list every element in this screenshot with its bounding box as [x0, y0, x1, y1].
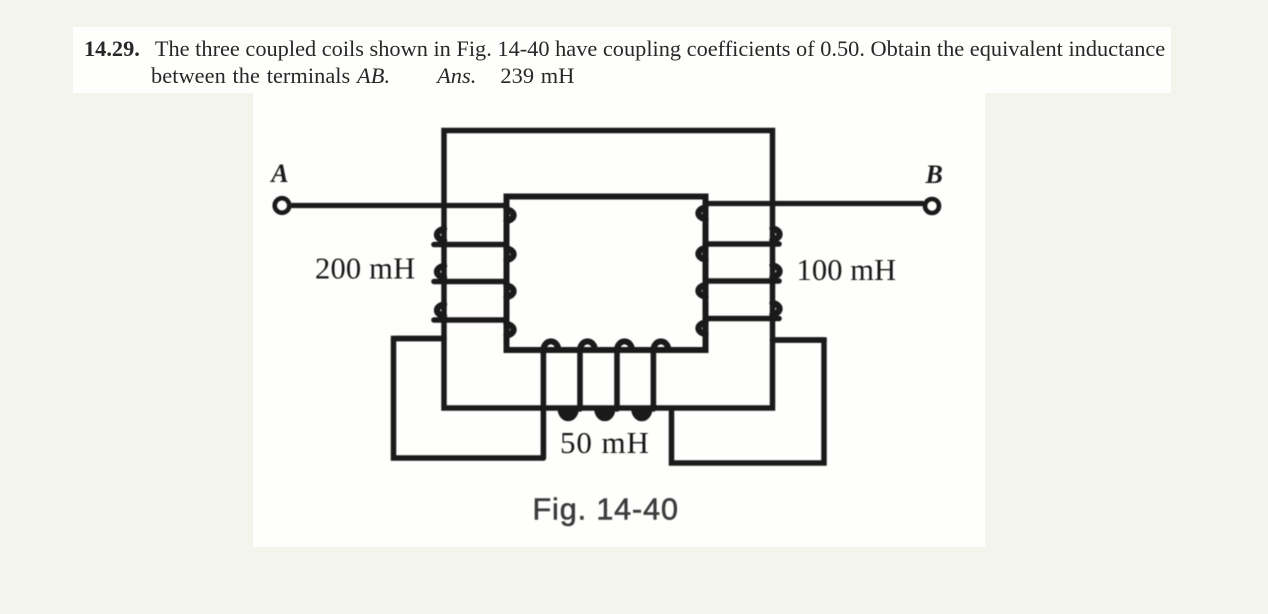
L1 inner-edge bump 4	[507, 324, 514, 336]
L1 inner-edge bump 1	[507, 210, 514, 222]
L2 inner-edge bump 2	[699, 248, 706, 260]
L2 outer-edge bump 2	[773, 266, 780, 278]
L3 top bump 3	[617, 341, 632, 350]
L2 outer-edge bump 1	[773, 229, 780, 241]
L1 front wire 2	[434, 242, 507, 248]
core outer rectangle	[444, 131, 773, 409]
inductor L1 200 mH left coil	[394, 210, 513, 339]
wire loop connecting left coil to bottom coil	[394, 339, 544, 459]
white strip behind problem text	[73, 27, 1171, 93]
L3 front wire v2	[577, 350, 583, 409]
L3 front wire v3	[614, 350, 620, 409]
L2 front wire 4	[706, 316, 780, 322]
L3 bottom bump 2	[597, 409, 613, 418]
white figure box	[253, 90, 985, 547]
wire from right coil to B	[706, 201, 924, 206]
inductor L3 50 mH bottom coil	[543, 341, 668, 458]
L2 inner-edge bump 3	[699, 285, 706, 297]
svg-text:B: B	[925, 160, 943, 189]
L3 bottom bump 1	[560, 409, 576, 418]
L1 front wire 4	[434, 317, 507, 323]
L3 top bump 4	[653, 341, 668, 350]
L1 front wire 3	[434, 279, 507, 285]
L1 outer-edge bump 1	[437, 229, 444, 241]
L1 outer-edge bump 3	[437, 305, 444, 317]
L3 top bump 2	[580, 341, 595, 350]
L1 inner-edge bump 2	[507, 249, 514, 261]
svg-text:Fig. 14-40: Fig. 14-40	[533, 493, 679, 527]
L3 front wire v1	[541, 350, 547, 458]
terminal A	[275, 198, 290, 213]
L1 outer-edge bump 2	[437, 266, 444, 278]
L3 top bump 1	[543, 341, 558, 350]
L2 inner-edge bump 1	[699, 208, 706, 220]
inductor L2 100 mH right coil	[699, 208, 824, 341]
L3 bottom bump 3	[634, 409, 650, 419]
L2 inner-edge bump 4	[699, 323, 706, 335]
wire loop connecting bottom coil to right coil	[672, 340, 825, 463]
svg-text:A: A	[269, 159, 288, 188]
problem statement text	[84, 35, 1234, 90]
core inner rectangle	[507, 197, 706, 351]
terminal B	[925, 199, 939, 213]
svg-text:50 mH: 50 mH	[560, 425, 650, 460]
wire from A to left coil	[292, 203, 507, 208]
L1 exit wire	[394, 336, 444, 342]
L3 front wire v4	[651, 350, 657, 409]
L2 outer-edge bump 3	[773, 303, 780, 315]
L2 front wire 3	[706, 278, 780, 284]
L2 front wire 2	[706, 241, 780, 247]
svg-text:200 mH: 200 mH	[315, 252, 415, 286]
L1 inner-edge bump 3	[507, 286, 514, 298]
svg-text:100 mH: 100 mH	[797, 253, 897, 287]
L2 exit wire	[773, 337, 825, 343]
